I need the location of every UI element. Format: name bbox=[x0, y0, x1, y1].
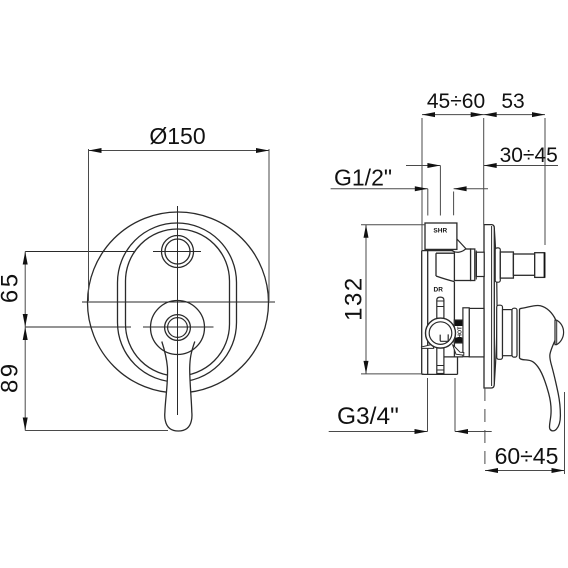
arrows 45-60 bbox=[422, 112, 435, 117]
bottom stem bbox=[437, 348, 444, 374]
hub collar2 bbox=[497, 305, 503, 359]
arrows 30-45 bbox=[427, 163, 440, 168]
svg-text:HOT: HOT bbox=[457, 326, 463, 338]
svg-text:89: 89 bbox=[0, 361, 24, 393]
svg-text:G3/4": G3/4" bbox=[337, 403, 399, 430]
svg-text:SHR: SHR bbox=[433, 228, 447, 235]
handle outline bbox=[162, 342, 195, 432]
right collar behind plate bbox=[495, 248, 500, 282]
svg-text:53: 53 bbox=[501, 90, 524, 113]
spout mid bbox=[513, 254, 534, 275]
diverter circle outer bbox=[162, 236, 194, 268]
dim Ø150 line bbox=[89, 150, 270, 152]
body bottom edge bbox=[422, 373, 458, 375]
dim 60-45 bbox=[485, 470, 565, 472]
spout thin line bbox=[475, 251, 477, 280]
arrows 89 bbox=[23, 327, 28, 340]
dim 132 bbox=[365, 225, 367, 374]
valve circle bbox=[426, 318, 456, 348]
right wing bbox=[453, 345, 464, 356]
knob ring inner bbox=[168, 318, 188, 338]
horizontal line diverter bbox=[25, 251, 134, 253]
vertical centerline bbox=[177, 206, 179, 415]
chamber block bbox=[436, 252, 454, 254]
lever side + dome (one outline) bbox=[520, 305, 561, 430]
G1/2 leader bbox=[331, 188, 428, 190]
plate inner line bbox=[491, 226, 493, 386]
svg-text:G1/2": G1/2" bbox=[334, 165, 392, 191]
svg-text:Ø150: Ø150 bbox=[149, 123, 205, 149]
spout neck bbox=[476, 252, 484, 276]
spout block bbox=[454, 249, 470, 281]
dim 65/89 line bbox=[24, 252, 26, 431]
HOT block bbox=[454, 320, 463, 343]
arrows 65 bbox=[23, 252, 28, 265]
body top edge bbox=[422, 250, 454, 252]
plate circle front bbox=[88, 212, 269, 393]
hub bulb bbox=[555, 320, 564, 344]
svg-text:65: 65 bbox=[0, 271, 24, 303]
svg-text:30÷45: 30÷45 bbox=[500, 144, 558, 167]
front centerlines bbox=[25, 206, 275, 415]
outer oval boss bbox=[118, 223, 237, 382]
valve notch bbox=[440, 334, 448, 341]
cartridge column bbox=[463, 308, 469, 357]
dim 45-60 / 53 bbox=[422, 114, 545, 116]
handle fill (covers arcs behind) bbox=[162, 338, 195, 431]
svg-text:45÷60: 45÷60 bbox=[427, 90, 485, 113]
plate bulge arc bbox=[494, 228, 497, 384]
arrows 60-45 bbox=[485, 468, 498, 473]
top stem bbox=[437, 297, 444, 318]
dim 30-45 bbox=[406, 165, 440, 167]
left wing bbox=[421, 344, 433, 348]
arrows Ø150 bbox=[89, 148, 102, 153]
inner oval boss bbox=[126, 229, 230, 376]
svg-text:60÷45: 60÷45 bbox=[495, 443, 559, 469]
SHR box bbox=[425, 223, 457, 249]
cone bbox=[452, 239, 466, 252]
arrows G1/2 bbox=[415, 186, 428, 191]
arrows 132 bbox=[364, 225, 369, 238]
knob circle bbox=[151, 301, 205, 355]
body rail bbox=[422, 251, 463, 375]
knob ring outer bbox=[165, 315, 191, 341]
horizontal line knob bbox=[25, 326, 131, 328]
G3/4 leader bbox=[329, 431, 428, 433]
spout ring bbox=[471, 249, 475, 281]
wall plate side bbox=[484, 225, 494, 388]
horizontal centerline plate bbox=[82, 301, 275, 303]
svg-text:132: 132 bbox=[341, 276, 368, 321]
hub band bbox=[503, 310, 513, 356]
arrows G3/4 bbox=[415, 429, 428, 434]
hub ring2 bbox=[512, 308, 517, 357]
cartridge neck bbox=[469, 308, 484, 357]
arrows 53 bbox=[484, 112, 497, 117]
diverter circle inner bbox=[165, 239, 190, 264]
svg-text:DR: DR bbox=[434, 286, 444, 293]
spout end cap bbox=[535, 253, 545, 278]
body right edge bbox=[453, 282, 455, 357]
spout cylinder right bbox=[500, 252, 513, 278]
